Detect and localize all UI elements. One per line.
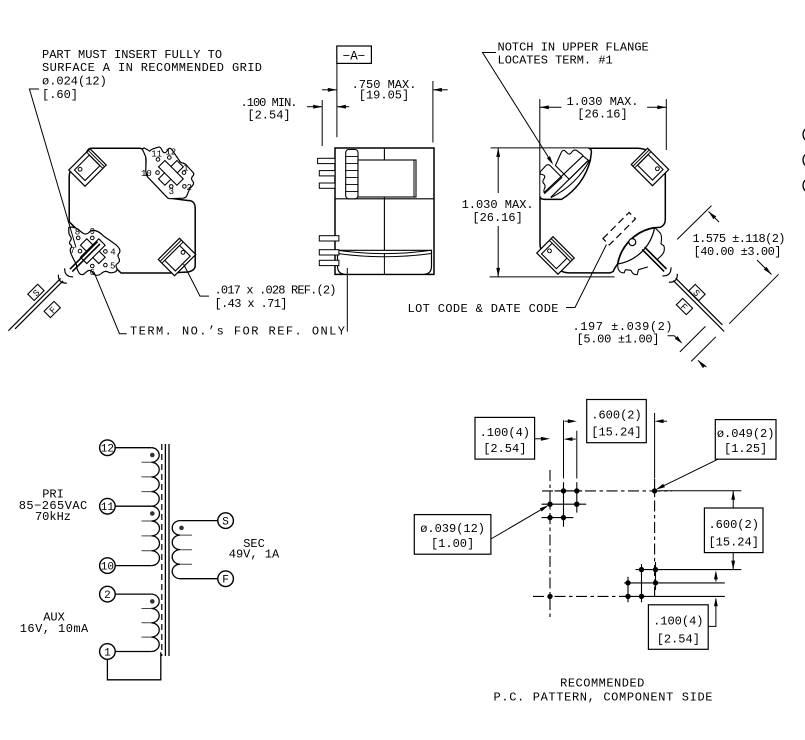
svg-text:[2.54]: [2.54] <box>483 442 526 456</box>
view2 side view body <box>335 148 434 274</box>
schematic: transformer core <box>161 444 163 656</box>
datum A flag <box>337 46 372 63</box>
view1 wire label F <box>44 301 62 319</box>
lead terminal 12 <box>115 447 151 449</box>
view2 winding window <box>358 160 416 197</box>
dimension box .100(4) top <box>475 417 535 459</box>
view3 upper flange teeth (notch locates term 1) <box>555 150 588 179</box>
view2 bobbin column <box>346 150 358 199</box>
svg-text:5: 5 <box>110 261 115 271</box>
lead terminal S <box>180 520 218 522</box>
svg-text:TERM. NO.’s FOR REF. ONLY: TERM. NO.’s FOR REF. ONLY <box>130 325 345 339</box>
svg-text:P.C. PATTERN, COMPONENT SIDE: P.C. PATTERN, COMPONENT SIDE <box>494 691 713 705</box>
pads .039 bottom-right cluster <box>639 567 644 572</box>
view3 wire label F <box>675 298 693 316</box>
svg-text:1.575 ±.118(2): 1.575 ±.118(2) <box>693 232 786 246</box>
note: term numbers for ref only <box>94 272 127 334</box>
view3 lower flange tooth NE <box>655 227 665 259</box>
svg-text:[.43 x .71]: [.43 x .71] <box>215 297 288 311</box>
view3 upper flange inner arc <box>551 160 590 198</box>
dimension box .600(2) right <box>704 508 763 553</box>
terminal hole 11 (view1) <box>156 158 160 162</box>
terminal hole 2 (view1) <box>183 185 187 189</box>
view1 lead wires (S,F) <box>70 242 100 272</box>
svg-text:ø.024(12): ø.024(12) <box>42 75 107 89</box>
view1 mounting tab bottom-right <box>158 238 195 275</box>
leader for pin diameter note <box>29 89 76 248</box>
svg-text:16V, 10mA: 16V, 10mA <box>20 622 89 636</box>
terminal hole 1 (view1) <box>182 171 186 175</box>
terminal hole 10 (view1) <box>156 171 160 175</box>
svg-text:NOTCH IN UPPER FLANGE: NOTCH IN UPPER FLANGE <box>498 41 649 55</box>
lead terminal 11 <box>115 505 151 507</box>
view3 lower flange tooth SW <box>618 265 648 275</box>
svg-text:[1.25]: [1.25] <box>724 442 767 456</box>
secondary winding S-F <box>172 521 180 579</box>
view3 wire break symbol <box>663 267 672 276</box>
svg-text:RECOMMENDED: RECOMMENDED <box>560 677 645 691</box>
winding crossover ticks <box>142 462 193 637</box>
svg-text:2: 2 <box>186 183 191 193</box>
polarity dots <box>150 453 155 458</box>
view3 wire label S <box>688 284 706 302</box>
pads .039 top-left cluster <box>561 488 566 493</box>
terminal circle F <box>218 571 234 587</box>
svg-text:12: 12 <box>101 444 114 456</box>
view1 upper flange cross slot <box>153 155 190 192</box>
lead terminal F <box>180 578 218 580</box>
aux winding 2-1 <box>151 594 159 651</box>
view2 bottom skirt <box>338 250 432 274</box>
svg-text:[2.54]: [2.54] <box>657 632 700 646</box>
terminal circle S <box>218 513 234 529</box>
revision balloons (clipped at right edge) <box>803 127 805 142</box>
view3 flange hole <box>629 239 636 246</box>
terminal hole 3 (view1) <box>169 185 173 189</box>
svg-text:.100(4): .100(4) <box>480 426 530 440</box>
view2 lower pins <box>319 236 339 241</box>
lead terminal 1 <box>115 651 151 653</box>
svg-text:[19.05]: [19.05] <box>359 88 409 102</box>
svg-text:.017 x .028 REF.(2): .017 x .028 REF.(2) <box>215 284 337 298</box>
svg-text:70kHz: 70kHz <box>35 510 71 524</box>
view1 upper flange with terminals 1,2,3,10,11,12 <box>142 147 194 199</box>
svg-text:[26.16]: [26.16] <box>577 108 627 122</box>
svg-text:[5.00 ±1.00]: [5.00 ±1.00] <box>577 333 660 347</box>
svg-text:12: 12 <box>165 148 176 158</box>
primary winding 11-10 <box>151 506 159 565</box>
svg-text:.600(2): .600(2) <box>591 409 641 423</box>
svg-text:ø.039(12): ø.039(12) <box>420 522 485 536</box>
lead terminal 2 <box>115 593 151 595</box>
extension lines pc pattern <box>564 413 742 491</box>
svg-text:9: 9 <box>90 227 95 237</box>
svg-text:S: S <box>222 516 229 528</box>
svg-text:1: 1 <box>183 164 188 174</box>
dimension .197 wire strip <box>680 326 706 352</box>
svg-text:2: 2 <box>104 590 111 602</box>
svg-text:SURFACE A IN RECOMMENDED GRID: SURFACE A IN RECOMMENDED GRID <box>42 61 262 75</box>
svg-text:−A−: −A− <box>343 50 366 64</box>
view1 lower flange with terminals 4,5,6,7,8,9 <box>69 227 120 275</box>
view2 upper pins <box>318 158 335 163</box>
note: wire cross section ref <box>184 264 210 296</box>
terminal hole 9 (view1) <box>91 236 95 240</box>
view3 mounting tab bottom-left <box>537 237 574 274</box>
svg-text:F: F <box>222 575 229 587</box>
dimension box .600(2) top <box>587 400 647 443</box>
leader to bottom pin <box>346 268 348 332</box>
view1 lower flange cross slot <box>74 233 111 270</box>
terminal hole 7 (view1) <box>78 249 82 253</box>
primary winding 12-11 <box>151 448 159 507</box>
dimension .100 MIN <box>307 106 322 108</box>
svg-text:LOT CODE & DATE CODE: LOT CODE & DATE CODE <box>408 302 559 316</box>
svg-text:11: 11 <box>151 149 162 159</box>
svg-text:ø.049(2): ø.049(2) <box>717 427 775 441</box>
extension lines side view <box>336 63 338 137</box>
svg-text:1.030 MAX.: 1.030 MAX. <box>462 198 534 212</box>
dimension box dia .049 <box>715 420 776 460</box>
dimension 1.575 lead length <box>677 206 711 240</box>
dimension 1.030 MAX vertical <box>491 147 589 149</box>
svg-text:49V, 1A: 49V, 1A <box>229 548 280 562</box>
svg-text:[15.24]: [15.24] <box>591 426 641 440</box>
view3 transformer bottom view body outline <box>540 148 665 273</box>
svg-text:11: 11 <box>101 502 115 514</box>
svg-text:[15.24]: [15.24] <box>708 536 758 550</box>
svg-text:4: 4 <box>110 247 115 257</box>
svg-text:1: 1 <box>104 647 111 659</box>
dimension .750 MAX <box>322 89 337 91</box>
terminal circle 2 <box>100 586 116 602</box>
svg-text:[40.00 ±3.00]: [40.00 ±3.00] <box>694 245 782 259</box>
view1 mounting tab top-left <box>69 149 106 186</box>
dimension box dia .039 <box>414 515 491 555</box>
svg-text:8: 8 <box>75 228 80 238</box>
svg-text:LOCATES TERM. #1: LOCATES TERM. #1 <box>498 54 613 68</box>
view1 wire break symbol <box>65 268 74 277</box>
lot code & date code dashed marking <box>603 212 636 245</box>
svg-text:7: 7 <box>70 246 75 256</box>
terminal hole 6 (view1) <box>91 264 95 268</box>
terminal hole 5 (view1) <box>104 263 108 267</box>
lead terminal 10 <box>115 565 151 567</box>
svg-text:.600(2): .600(2) <box>708 518 758 532</box>
pads .049 <box>652 488 657 493</box>
view1 wire label S <box>28 284 46 302</box>
view3 lead wires (S,F) <box>642 247 666 271</box>
pad grid lines bottom-right cluster <box>623 562 741 602</box>
svg-text:3: 3 <box>169 187 174 197</box>
terminal circle 12 <box>100 440 116 456</box>
svg-text:10: 10 <box>141 169 152 179</box>
view3 notch slot diagonals <box>544 156 589 198</box>
wire terminal 1 to aux winding bottom <box>107 652 160 680</box>
terminal circle 10 <box>100 558 116 574</box>
svg-text:[26.16]: [26.16] <box>472 211 522 225</box>
terminal hole 4 (view1) <box>104 250 108 254</box>
svg-text:[1.00]: [1.00] <box>431 537 474 551</box>
svg-text:[2.54]: [2.54] <box>247 109 290 123</box>
svg-text:10: 10 <box>101 561 114 573</box>
terminal circle 1 <box>100 644 116 660</box>
view3 mounting tab top-right <box>631 148 668 185</box>
terminal hole 12 (view1) <box>168 156 172 160</box>
terminal circle 11 <box>100 498 116 514</box>
view1 transformer top view body outline <box>69 148 195 273</box>
svg-text:.100(4): .100(4) <box>653 615 703 629</box>
view3 lower flange lens (wire exit boss) <box>617 227 654 264</box>
pad grid lines top-left cluster <box>542 482 587 527</box>
terminal hole 8 (view1) <box>76 236 80 240</box>
dimension box .100(4) bottom <box>648 605 708 650</box>
svg-text:[.60]: [.60] <box>42 88 78 102</box>
svg-text:PART MUST INSERT FULLY TO: PART MUST INSERT FULLY TO <box>42 48 222 62</box>
dimension 1.030 MAX horizontal <box>539 99 541 197</box>
pc pattern centerline square <box>549 470 551 618</box>
